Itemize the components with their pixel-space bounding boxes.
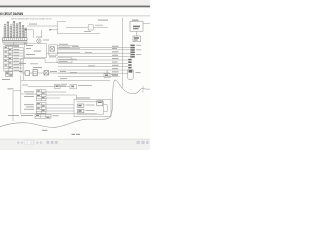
svg-text:14 / 286: 14 / 286 [25,142,34,145]
unit comp 1 [78,104,95,107]
lower-left switch row wires [21,70,110,74]
svg-text:WIRING HARNESS AND RELAY BOX S: WIRING HARNESS AND RELAY BOX SIGNAL CIRC… [11,17,53,20]
legend cell row [35,114,51,118]
switch row box2 tall [33,69,37,75]
bottom toolbar [0,139,150,150]
fuse bank vertical fuse boxes [4,22,26,37]
mid label under R2 [30,62,38,65]
switch row box2 hatch [33,71,37,73]
comp box small2 [70,85,77,89]
label above wire y26 [29,23,37,26]
MAIN label box [57,58,72,63]
toolbar right icons [137,141,149,144]
arrow head B [50,29,52,31]
switch row label above [33,66,42,69]
grid2 dark cells [37,103,44,111]
lower right unit outer box [74,100,111,117]
connector pins mid [128,59,131,69]
comp box2 tick [71,86,74,88]
lower small connector box [5,72,12,77]
top-right relay box [130,20,143,32]
left grid cell dots [5,47,12,68]
connector lower shell [128,69,133,79]
unit inner loop [77,102,108,114]
heater switch label [84,30,91,33]
right margin labels [136,71,141,74]
left connector drop bus [13,47,23,71]
R3 labels [49,44,70,58]
fig number text [72,134,76,135]
unit pin box [97,101,103,106]
relay box wire out right [143,23,150,25]
upper right comp tick [105,74,108,76]
big block left edge [56,22,58,34]
left grid wire labels [14,46,20,70]
comp1 label left text [22,84,28,87]
relay box riser down [136,31,138,36]
lower connector dark cells [6,72,12,75]
R2 inner marks [26,45,41,55]
mid-span wire labels [70,46,95,73]
title underline rule [0,15,150,18]
upper right comp label [111,73,118,76]
grid2 left labels [24,104,34,110]
left lower vertical bus [20,75,22,114]
bus line y80 [21,79,110,81]
small comp under relay [133,36,140,42]
comp box small1 [54,84,60,88]
grid1 wires right [21,92,77,100]
vertical bus x23 [22,47,24,80]
comp2 label right [78,84,92,87]
grid1 left labels [24,91,34,97]
grid1 dark cells [37,90,44,98]
relay box R3 [49,45,58,55]
fuse bus drop to grid [13,43,15,47]
diamond component [36,37,49,44]
grid cluster 1 [36,90,46,101]
heater switch wire out [93,27,108,29]
unit box top label [76,97,90,100]
wire labels y75 [19,63,67,86]
grid2 wires right [46,105,74,111]
wave small label [42,130,48,131]
fuse box hatch ticks [4,25,26,36]
wire diamond drop [41,30,43,38]
right page inner vertical edge [122,18,124,88]
big block top edge seg1 [57,21,66,23]
left mid vertical [20,59,22,74]
app top band [0,0,150,6]
wire label above y25 [95,24,103,27]
caption under bottom rule [8,115,59,116]
unit comp 2 [78,109,95,112]
wire label above x60 [61,83,67,86]
comp box1 tick [55,85,58,87]
torn page edge wave [0,80,150,127]
toolbar nav icons [17,141,58,145]
tear tick mark [142,86,144,93]
pin stack right labels [136,45,141,55]
mid jog wire [21,59,58,63]
left connector grid [4,46,13,71]
fuse bank caption rows [3,44,27,46]
upper right comp box [104,74,110,78]
connector feed stubs [120,48,131,74]
heater switch wire [66,27,88,29]
wire arrow stub A [28,30,34,38]
to-label bottom left [2,78,10,81]
wire y86.5 row [28,86,70,88]
bus wire end labels (right) [112,46,119,76]
upper right small comp riser [106,70,108,73]
connector pin stack upper [130,45,134,58]
heater switch body [88,25,93,30]
wire from fuse bank right y26 [27,25,57,27]
bottom rule line [21,113,97,115]
grid cluster 2 [36,103,46,114]
relay R3 wires right [57,46,80,53]
left drop wire x13 [13,91,21,121]
wire arrow stub B [52,29,58,31]
relay R3 cross symbol [50,47,54,52]
box R2 outline [24,43,46,58]
fuse bus strip lower [2,41,27,42]
dark header divider line [0,6,150,8]
page background [0,0,150,150]
big block inner line y33.5 [57,33,100,35]
block label top right [98,20,108,21]
switch row box3 X [44,71,49,75]
arrow head A [25,29,27,31]
switch row left label [19,70,23,73]
bus wires to right connector [46,48,119,77]
fuse top labels [4,21,24,26]
switch row box1 [25,71,30,75]
drop wire label [8,87,14,90]
fuse bus strip upper [2,38,27,41]
